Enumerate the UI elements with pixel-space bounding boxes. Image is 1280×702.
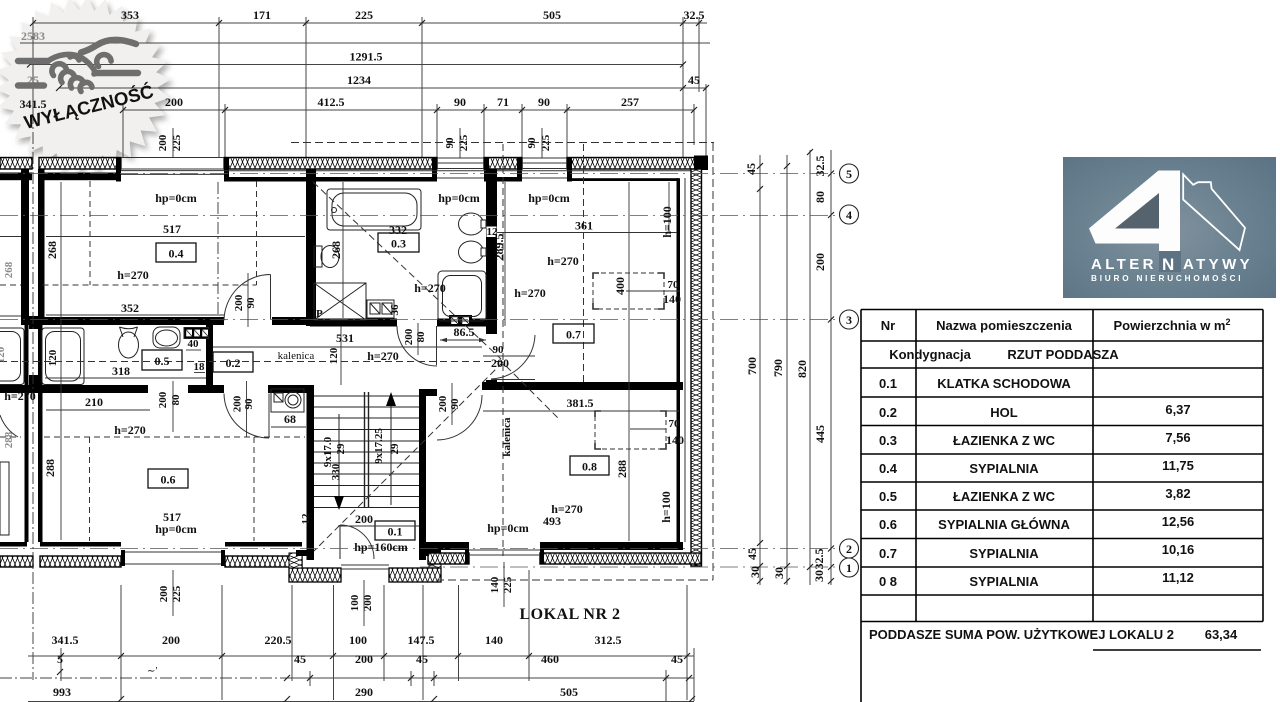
shelf 0.5 xyxy=(184,328,209,339)
svg-text:9x17.25: 9x17.25 xyxy=(373,428,385,464)
top windows glazing xyxy=(121,158,567,179)
svg-text:LOKAL NR 2: LOKAL NR 2 xyxy=(519,606,620,623)
toilet 0.5 xyxy=(120,327,138,337)
svg-text:32.5: 32.5 xyxy=(684,8,705,22)
svg-text:63,34: 63,34 xyxy=(1205,627,1238,642)
left arm upper xyxy=(18,58,48,64)
thumb left hand xyxy=(70,56,79,60)
stair bay xyxy=(289,568,341,582)
top-right corner xyxy=(694,156,708,171)
svg-text:12,56: 12,56 xyxy=(1162,514,1195,529)
neighbour bathtub xyxy=(0,328,24,385)
svg-text:SYPIALNIA: SYPIALNIA xyxy=(969,574,1039,589)
bottom dims xyxy=(0,570,695,702)
svg-text:200: 200 xyxy=(813,253,827,271)
svg-text:445: 445 xyxy=(813,425,827,443)
room boxes xyxy=(142,233,609,540)
svg-text:PODDASZE SUMA POW. UŻYTKOWEJ: PODDASZE SUMA POW. UŻYTKOWEJ LOKALU 2 xyxy=(869,627,1174,642)
svg-text:80: 80 xyxy=(813,191,827,203)
svg-text:0.5: 0.5 xyxy=(879,489,897,504)
svg-text:330: 330 xyxy=(330,463,342,480)
svg-text:288: 288 xyxy=(3,431,15,448)
svg-text:0.3: 0.3 xyxy=(879,433,897,448)
wall 0.4|0.5 horizontal xyxy=(21,317,224,325)
hp and h labels xyxy=(4,191,583,554)
svg-text:268: 268 xyxy=(329,241,343,259)
svg-text:h=100: h=100 xyxy=(659,491,673,523)
neighbour cupboard xyxy=(0,462,9,535)
svg-text:45: 45 xyxy=(294,652,306,666)
bottom window 0.6 xyxy=(121,552,225,564)
svg-text:SYPIALNIA: SYPIALNIA xyxy=(969,546,1039,561)
svg-text:9x17.0: 9x17.0 xyxy=(322,436,334,467)
svg-text:332: 332 xyxy=(389,223,407,237)
svg-text:86.5: 86.5 xyxy=(454,325,475,339)
svg-text:0.2: 0.2 xyxy=(879,405,897,420)
party axis xyxy=(32,112,34,680)
rotated labels xyxy=(744,156,827,583)
svg-text:531: 531 xyxy=(336,331,354,345)
svg-text:hp=0cm: hp=0cm xyxy=(487,521,529,535)
svg-text:Powierzchnia w m2: Powierzchnia w m2 xyxy=(1114,317,1231,333)
svg-text:90: 90 xyxy=(245,297,257,309)
svg-text:2583: 2583 xyxy=(21,29,45,43)
svg-text:h=270: h=270 xyxy=(4,389,36,403)
svg-text:4: 4 xyxy=(846,208,852,222)
svg-text:268: 268 xyxy=(3,261,15,278)
svg-text:290: 290 xyxy=(355,685,373,699)
svg-text:30: 30 xyxy=(812,570,826,582)
roof outline xyxy=(1183,174,1245,250)
stringer xyxy=(365,392,369,508)
svg-text:kalenica: kalenica xyxy=(278,350,315,362)
svg-text:HOL: HOL xyxy=(990,405,1018,420)
right fingers wrap xyxy=(97,55,111,67)
svg-text:80: 80 xyxy=(415,331,427,343)
axes dash-dot xyxy=(0,215,839,217)
svg-text:hp=0cm: hp=0cm xyxy=(438,191,480,205)
svg-text:200: 200 xyxy=(403,328,415,345)
hole shading xyxy=(1115,193,1159,229)
svg-text:288: 288 xyxy=(615,460,629,478)
svg-text:70: 70 xyxy=(668,279,680,291)
bottom wall left unit xyxy=(0,542,27,547)
0.6 knee dashed xyxy=(0,437,305,541)
right arm upper xyxy=(81,40,136,53)
svg-text:hp=0cm: hp=0cm xyxy=(155,191,197,205)
svg-text:140: 140 xyxy=(666,433,684,447)
interior dims and labels xyxy=(0,182,684,626)
svg-text:45: 45 xyxy=(416,652,428,666)
svg-text:29: 29 xyxy=(335,443,347,455)
knuckles xyxy=(52,64,67,76)
svg-text:1: 1 xyxy=(846,561,852,575)
0.8 skylight dashed rect xyxy=(595,411,666,449)
svg-text:400: 400 xyxy=(613,277,627,295)
svg-text:11,75: 11,75 xyxy=(1162,458,1194,473)
svg-text:493: 493 xyxy=(543,514,561,528)
svg-text:2: 2 xyxy=(846,542,852,556)
svg-text:268: 268 xyxy=(45,241,59,259)
svg-text:hp=0cm: hp=0cm xyxy=(155,522,197,536)
svg-text:N: N xyxy=(1162,255,1174,274)
svg-text:30: 30 xyxy=(772,567,786,579)
svg-text:200: 200 xyxy=(491,356,509,370)
svg-text:505: 505 xyxy=(560,685,578,699)
svg-text:0.5: 0.5 xyxy=(155,354,170,368)
basins 0.3 xyxy=(459,213,484,235)
svg-text:Kondygnacja: Kondygnacja xyxy=(889,347,971,362)
checker cabinets top of nook xyxy=(449,315,472,327)
svg-text:312.5: 312.5 xyxy=(595,633,622,647)
svg-text:30: 30 xyxy=(748,566,762,578)
svg-text:100: 100 xyxy=(349,633,367,647)
svg-text:412.5: 412.5 xyxy=(318,95,345,109)
0.4 knee dashed xyxy=(0,181,257,285)
svg-text:318: 318 xyxy=(112,364,130,378)
top dimension lines xyxy=(20,8,711,158)
door arcs xyxy=(0,274,535,440)
svg-text:h=270: h=270 xyxy=(114,423,146,437)
svg-text:140: 140 xyxy=(485,633,503,647)
wall row at 0.8 top xyxy=(419,389,437,396)
svg-text:200: 200 xyxy=(355,512,373,526)
svg-text:200: 200 xyxy=(355,652,373,666)
svg-text:90: 90 xyxy=(493,344,505,356)
vertical extensions xyxy=(120,585,122,700)
svg-text:h=270: h=270 xyxy=(414,281,446,295)
N box xyxy=(1159,251,1181,272)
svg-text:7,56: 7,56 xyxy=(1165,430,1190,445)
svg-text:h=270: h=270 xyxy=(117,268,149,282)
wall 0.3|hol xyxy=(310,319,397,327)
bathtub 0.3 xyxy=(327,189,421,230)
svg-text:BIURO NIERUCHOMOŚCI: BIURO NIERUCHOMOŚCI xyxy=(1091,272,1243,283)
svg-text:147.5: 147.5 xyxy=(408,633,435,647)
plan walls xyxy=(0,156,708,583)
svg-text:80: 80 xyxy=(170,394,182,406)
svg-text:220.5: 220.5 xyxy=(265,633,292,647)
shower 0.3 xyxy=(438,271,486,321)
figure 4 xyxy=(1089,171,1180,273)
stair walls xyxy=(307,393,315,560)
svg-text:140: 140 xyxy=(663,292,681,306)
svg-text:0.1: 0.1 xyxy=(388,525,403,539)
svg-text:225: 225 xyxy=(355,8,373,22)
svg-text:5: 5 xyxy=(846,167,852,181)
ticks xyxy=(27,20,709,113)
svg-text:0 8: 0 8 xyxy=(879,574,897,589)
logo xyxy=(1063,157,1276,298)
svg-text:100: 100 xyxy=(349,594,361,611)
svg-text:RZUT PODDASZA: RZUT PODDASZA xyxy=(1007,347,1119,362)
svg-text:120: 120 xyxy=(0,346,7,363)
svg-text:12: 12 xyxy=(300,513,312,525)
svg-text:0.6: 0.6 xyxy=(161,473,176,487)
svg-text:68: 68 xyxy=(284,412,296,426)
svg-text:0.2: 0.2 xyxy=(226,356,241,370)
erased label blob xyxy=(143,663,171,677)
svg-text:5: 5 xyxy=(57,652,63,666)
svg-text:45: 45 xyxy=(688,73,700,87)
svg-text:1234: 1234 xyxy=(347,73,371,87)
roof overhang dashed xyxy=(291,142,714,144)
fraction bars for rotated pairs xyxy=(173,273,504,626)
svg-text:0.4: 0.4 xyxy=(879,461,898,476)
bottom wall 0.6 xyxy=(40,542,121,547)
svg-text:18: 18 xyxy=(194,361,206,373)
labels row1 xyxy=(20,8,705,111)
svg-text:6,37: 6,37 xyxy=(1165,402,1190,417)
svg-text:3: 3 xyxy=(846,313,852,327)
svg-text:45: 45 xyxy=(744,163,758,175)
extension verticals xyxy=(32,17,34,112)
svg-text:h=270: h=270 xyxy=(367,349,399,363)
svg-text:11,12: 11,12 xyxy=(1162,570,1194,585)
svg-text:352: 352 xyxy=(121,301,139,315)
svg-text:10,16: 10,16 xyxy=(1162,542,1195,557)
svg-text:SYPIALNIA: SYPIALNIA xyxy=(969,461,1039,476)
svg-text:∼′: ∼′ xyxy=(147,666,158,677)
bay door arc xyxy=(340,525,374,559)
dashed roof lines xyxy=(0,112,839,680)
svg-text:200: 200 xyxy=(162,633,180,647)
cabinet 0.3 xyxy=(367,300,394,318)
arrows xyxy=(390,404,392,505)
svg-text:993: 993 xyxy=(53,685,71,699)
svg-text:P: P xyxy=(316,308,323,320)
svg-text:0.3: 0.3 xyxy=(391,237,406,251)
svg-text:288: 288 xyxy=(43,459,57,477)
svg-text:820: 820 xyxy=(795,360,809,378)
svg-text:200: 200 xyxy=(232,395,244,412)
svg-text:289.5: 289.5 xyxy=(492,234,506,261)
washer box 0.6 xyxy=(271,389,304,412)
svg-text:KLATKA SCHODOWA: KLATKA SCHODOWA xyxy=(937,376,1071,391)
svg-text:200: 200 xyxy=(157,134,169,151)
svg-text:361: 361 xyxy=(575,219,593,233)
sink 0.5 xyxy=(153,327,180,348)
svg-text:1291.5: 1291.5 xyxy=(350,50,383,64)
svg-text:381.5: 381.5 xyxy=(567,396,594,410)
svg-text:210: 210 xyxy=(85,395,103,409)
svg-text:ŁAZIENKA Z WC: ŁAZIENKA Z WC xyxy=(953,489,1056,504)
svg-text:790: 790 xyxy=(771,359,785,377)
svg-text:341.5: 341.5 xyxy=(52,633,79,647)
svg-text:0.4: 0.4 xyxy=(169,247,184,261)
svg-text:45: 45 xyxy=(671,652,683,666)
ticks row A xyxy=(57,653,695,702)
svg-text:Nazwa pomieszczenia: Nazwa pomieszczenia xyxy=(936,318,1073,333)
left arm lower xyxy=(18,82,44,88)
party walls left xyxy=(21,169,29,324)
wall hol|0.6 row xyxy=(0,385,148,393)
svg-text:hp=0cm: hp=0cm xyxy=(528,191,570,205)
svg-text:200: 200 xyxy=(158,585,170,602)
svg-text:120: 120 xyxy=(47,349,59,366)
labels xyxy=(52,633,684,699)
washer 0.3 xyxy=(314,283,366,320)
wall 0.3|0.7 with basins xyxy=(486,169,497,334)
svg-text:460: 460 xyxy=(541,652,559,666)
svg-text:45: 45 xyxy=(745,548,759,560)
wall 0.4|0.3 xyxy=(306,169,316,326)
svg-text:0.7: 0.7 xyxy=(566,328,581,342)
svg-text:40: 40 xyxy=(188,338,200,350)
svg-text:70: 70 xyxy=(669,418,681,430)
top wall inner face xyxy=(0,173,32,181)
svg-text:120: 120 xyxy=(328,347,340,364)
window fraction labels xyxy=(157,134,552,151)
interior dim lines with labels xyxy=(0,182,680,541)
top wall hatched band xyxy=(0,158,702,170)
fixtures xyxy=(0,189,486,535)
svg-text:90: 90 xyxy=(449,398,461,410)
svg-text:90: 90 xyxy=(454,95,466,109)
svg-text:0.8: 0.8 xyxy=(582,460,597,474)
svg-text:3,82: 3,82 xyxy=(1165,486,1190,501)
handshake xyxy=(18,40,138,92)
rotated labels xyxy=(0,206,674,611)
svg-text:90: 90 xyxy=(538,95,550,109)
svg-text:32.5: 32.5 xyxy=(813,156,827,177)
svg-text:700: 700 xyxy=(745,357,759,375)
stairs xyxy=(314,392,419,559)
svg-text:140: 140 xyxy=(489,576,501,593)
table xyxy=(861,310,1263,702)
hips xyxy=(313,182,501,359)
svg-text:200: 200 xyxy=(233,294,245,311)
svg-text:257: 257 xyxy=(621,95,639,109)
window jambs xyxy=(116,157,572,182)
ticks xyxy=(757,149,834,584)
svg-text:36: 36 xyxy=(389,304,401,316)
svg-text:0.7: 0.7 xyxy=(879,546,897,561)
svg-text:71: 71 xyxy=(497,95,509,109)
svg-text:353: 353 xyxy=(121,8,139,22)
circles xyxy=(840,164,859,577)
svg-text:517: 517 xyxy=(163,222,181,236)
svg-text:kalenica: kalenica xyxy=(501,417,513,457)
right arm lower xyxy=(95,70,138,76)
svg-text:171: 171 xyxy=(253,8,271,22)
svg-text:SYPIALNIA GŁÓWNA: SYPIALNIA GŁÓWNA xyxy=(938,517,1070,532)
svg-text:h=270: h=270 xyxy=(514,286,546,300)
fist top xyxy=(48,54,95,74)
svg-text:ALTER: ALTER xyxy=(1091,256,1157,273)
svg-text:90: 90 xyxy=(243,398,255,410)
svg-text:32.5: 32.5 xyxy=(812,549,826,570)
svg-text:hp=160cm: hp=160cm xyxy=(354,540,408,554)
watermark seal xyxy=(0,0,171,172)
svg-text:29: 29 xyxy=(389,443,401,455)
kalenica ridge lines xyxy=(0,361,503,363)
wall 0.5|hol xyxy=(206,317,213,393)
svg-text:0.6: 0.6 xyxy=(879,517,897,532)
svg-text:200: 200 xyxy=(157,391,169,408)
svg-text:ŁAZIENKA Z WC: ŁAZIENKA Z WC xyxy=(953,433,1056,448)
svg-text:505: 505 xyxy=(543,8,561,22)
0.7 skylight dashed rect xyxy=(593,273,664,309)
bathtub 0.5 xyxy=(42,328,84,385)
right wall xyxy=(691,169,702,566)
svg-text:200: 200 xyxy=(437,395,449,412)
toilet 0.3 xyxy=(314,246,322,267)
right axis dims xyxy=(744,149,859,585)
svg-text:0.1: 0.1 xyxy=(879,376,897,391)
svg-text:200: 200 xyxy=(165,95,183,109)
svg-text:h=100: h=100 xyxy=(660,206,674,238)
bottom wall 0.8 xyxy=(426,542,469,550)
svg-text:Nr: Nr xyxy=(881,318,895,333)
svg-text:h=270: h=270 xyxy=(547,254,579,268)
svg-text:ATYWY: ATYWY xyxy=(1183,256,1253,273)
